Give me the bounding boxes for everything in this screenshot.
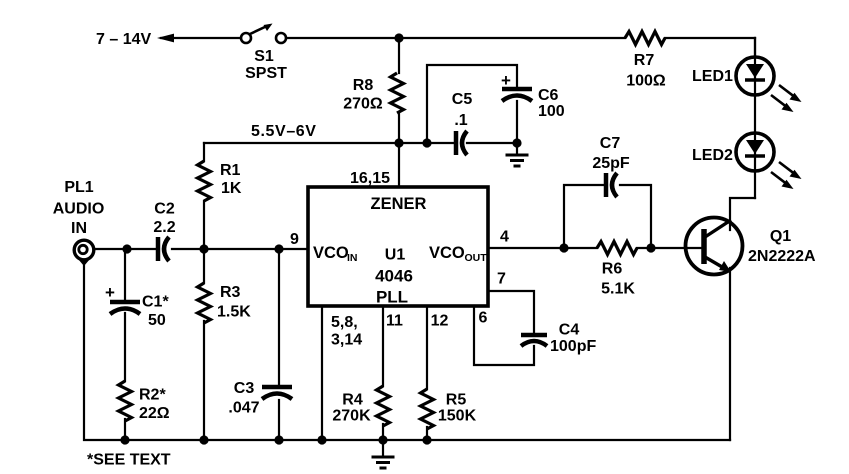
svg-text:C3: C3 (234, 380, 255, 397)
svg-text:5,8,: 5,8, (331, 314, 358, 331)
svg-text:R4: R4 (342, 392, 363, 409)
svg-text:50: 50 (148, 312, 166, 329)
svg-text:16,15: 16,15 (350, 170, 390, 187)
svg-text:2N2222A: 2N2222A (748, 248, 816, 265)
svg-text:VCO: VCO (429, 244, 465, 262)
svg-text:R5: R5 (446, 392, 467, 409)
svg-text:+: + (501, 71, 511, 90)
svg-text:C2: C2 (154, 201, 175, 218)
svg-text:SPST: SPST (245, 65, 287, 82)
svg-text:7: 7 (497, 271, 506, 288)
svg-text:270K: 270K (332, 408, 371, 425)
svg-text:PL1: PL1 (64, 179, 93, 196)
svg-text:5.1K: 5.1K (601, 281, 635, 298)
svg-text:270Ω: 270Ω (343, 96, 383, 113)
svg-text:2.2: 2.2 (153, 219, 175, 236)
svg-text:C4: C4 (559, 322, 580, 339)
svg-text:IN: IN (71, 220, 87, 237)
svg-text:22Ω: 22Ω (139, 405, 170, 422)
svg-text:R8: R8 (353, 77, 374, 94)
svg-text:R1: R1 (220, 162, 241, 179)
svg-text:R3: R3 (220, 284, 241, 301)
svg-text:12: 12 (431, 313, 449, 330)
svg-text:100Ω: 100Ω (626, 73, 666, 90)
svg-text:U1: U1 (385, 247, 406, 264)
svg-text:3,14: 3,14 (331, 332, 362, 349)
svg-text:VCO: VCO (313, 244, 349, 262)
svg-text:R6: R6 (602, 261, 623, 278)
svg-text:C7: C7 (600, 135, 621, 152)
svg-text:C1*: C1* (142, 294, 169, 311)
svg-text:4046: 4046 (375, 267, 413, 286)
svg-text:5.5V–6V: 5.5V–6V (251, 123, 317, 140)
svg-text:AUDIO: AUDIO (53, 201, 105, 218)
svg-text:LED1: LED1 (692, 68, 733, 85)
svg-text:ZENER: ZENER (371, 195, 427, 213)
svg-text:PLL: PLL (376, 288, 408, 307)
svg-text:25pF: 25pF (592, 155, 630, 172)
svg-text:1K: 1K (221, 180, 242, 197)
svg-text:C5: C5 (452, 91, 473, 108)
svg-text:9: 9 (290, 231, 299, 248)
svg-text:6: 6 (479, 310, 488, 327)
svg-text:150K: 150K (438, 408, 477, 425)
svg-text:C6: C6 (538, 87, 559, 104)
svg-text:LED2: LED2 (692, 147, 733, 164)
svg-text:R7: R7 (634, 52, 655, 69)
svg-text:+: + (105, 283, 115, 302)
svg-text:4: 4 (500, 229, 509, 246)
svg-text:IN: IN (347, 252, 358, 264)
svg-text:100: 100 (538, 103, 565, 120)
svg-text:OUT: OUT (465, 252, 488, 264)
svg-text:11: 11 (386, 313, 403, 330)
svg-text:Q1: Q1 (770, 228, 791, 245)
svg-text:S1: S1 (254, 48, 274, 65)
svg-text:1.5K: 1.5K (217, 304, 251, 321)
svg-text:*SEE TEXT: *SEE TEXT (87, 452, 171, 469)
svg-text:7 – 14V: 7 – 14V (96, 31, 151, 48)
svg-text:.047: .047 (228, 400, 259, 417)
svg-text:.1: .1 (454, 112, 467, 129)
svg-text:R2*: R2* (139, 387, 166, 404)
svg-text:100pF: 100pF (550, 338, 596, 355)
